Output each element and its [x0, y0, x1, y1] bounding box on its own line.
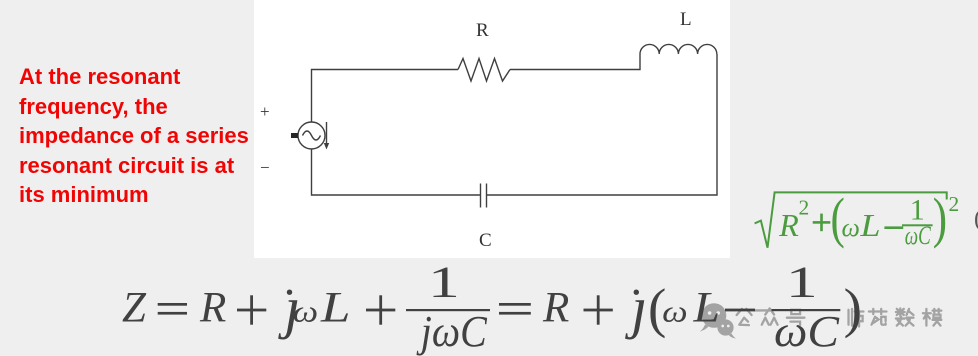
svg-text:L: L [320, 285, 351, 332]
svg-text:jωC: jωC [416, 307, 487, 356]
char zhong [762, 308, 778, 324]
minus [884, 226, 903, 229]
inductor L [640, 44, 717, 54]
svg-text:L: L [692, 285, 720, 332]
partial glyph at right edge [974, 206, 978, 233]
big open paren [831, 187, 845, 249]
svg-text:ωC: ωC [774, 307, 840, 356]
wire: resistor to inductor [510, 54, 640, 70]
char gong [737, 309, 752, 325]
char mo [923, 309, 941, 326]
wechat icon big bubble [700, 303, 737, 338]
svg-text:R: R [778, 207, 799, 243]
svg-text:ω: ω [293, 294, 319, 329]
svg-text:L: L [859, 207, 880, 243]
big close paren [933, 187, 947, 249]
wire: capacitor to source bottom [312, 149, 481, 195]
fraction bar [902, 224, 933, 226]
svg-text:−: − [260, 158, 270, 177]
watermark text strokes [737, 308, 942, 326]
char shi [849, 309, 864, 327]
fraction bar [406, 309, 490, 311]
svg-text:ȷ: ȷ [624, 275, 647, 340]
svg-text:): ) [933, 187, 947, 249]
plus [237, 309, 266, 312]
svg-text:ωC: ωC [905, 221, 931, 250]
plus [813, 221, 831, 224]
wire: source top to resistor [312, 70, 459, 122]
fraction bar [772, 309, 841, 311]
svg-text:C: C [479, 230, 492, 251]
svg-text:R: R [199, 285, 226, 332]
svg-text:Z: Z [122, 285, 147, 332]
svg-text:L: L [680, 9, 692, 30]
circuit schematic [254, 0, 730, 258]
svg-text:2: 2 [949, 192, 960, 216]
radical sign [755, 192, 947, 247]
plus [366, 309, 395, 312]
dash continuation under fraction bar [755, 309, 773, 311]
black impedance formula [100, 258, 890, 356]
capacitor C plate right [486, 184, 488, 208]
plus [584, 309, 613, 312]
char yuan [869, 309, 887, 325]
svg-text:1: 1 [428, 258, 460, 307]
current arrow head [324, 143, 329, 150]
minus [725, 309, 755, 312]
resistor R [458, 59, 510, 82]
svg-text:2: 2 [799, 196, 810, 220]
green impedance magnitude formula [748, 183, 978, 258]
svg-text:ω: ω [842, 213, 860, 242]
svg-text:+: + [260, 102, 270, 121]
svg-text:R: R [476, 20, 489, 41]
svg-text:R: R [542, 285, 569, 332]
char hao [787, 310, 805, 326]
red caption text [19, 62, 261, 210]
watermark (drawn beneath formulas) [695, 295, 978, 351]
equals [499, 303, 531, 306]
source left terminal dash [291, 133, 298, 138]
svg-text:): ) [844, 278, 862, 339]
equals [158, 303, 187, 306]
white circuit panel [254, 0, 730, 258]
current arrow shaft [326, 122, 328, 144]
svg-text:ω: ω [662, 294, 688, 329]
AC source circle [298, 122, 325, 149]
svg-text:1: 1 [786, 258, 818, 307]
capacitor C plate left [480, 184, 482, 208]
wire: right side down to capacitor [487, 54, 718, 195]
wechat icon small bubble [717, 319, 733, 335]
char shu [896, 308, 914, 325]
AC source sine wave [303, 131, 321, 140]
